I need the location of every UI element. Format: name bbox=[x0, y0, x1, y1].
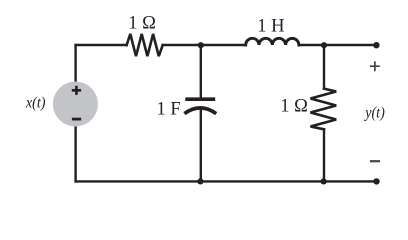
source - polarity mark bbox=[72, 118, 81, 121]
wire capacitor branch lower (C1 to bottom wire) bbox=[200, 110, 202, 181]
capacitor C1 1 F top plate bbox=[185, 97, 215, 101]
output - terminal dot bbox=[373, 178, 379, 184]
svg-text:y(t): y(t) bbox=[363, 104, 384, 121]
voltage source x(t) circle bbox=[53, 82, 98, 127]
output + terminal dot bbox=[373, 42, 379, 48]
bottom junction dot capacitor branch bbox=[197, 178, 203, 184]
node A junction dot (top of capacitor branch) bbox=[198, 42, 204, 48]
wire top from source to R1 bbox=[76, 44, 127, 46]
svg-text:1 Ω: 1 Ω bbox=[280, 97, 308, 117]
wire from R2 to bottom wire bbox=[323, 129, 325, 181]
wire bottom horizontal bbox=[76, 180, 377, 182]
wire left vertical from top wire to source top bbox=[74, 45, 76, 82]
wire from R1 to node A bbox=[163, 44, 201, 46]
wire left vertical from source bottom to bottom wire bbox=[74, 126, 76, 181]
resistor R1 1 Ohm (series) zigzag bbox=[127, 34, 163, 56]
svg-text:1 H: 1 H bbox=[257, 17, 284, 37]
wire from L1 to node B bbox=[299, 44, 324, 46]
source + polarity mark bbox=[72, 86, 81, 95]
wire from node B to output + terminal bbox=[324, 44, 376, 46]
wire capacitor branch upper (node A to C1 top plate) bbox=[200, 45, 202, 98]
svg-text:1 F: 1 F bbox=[157, 99, 181, 119]
output + sign bbox=[370, 61, 380, 71]
inductor L1 1 H (4 humps) bbox=[246, 38, 299, 45]
wire from node B down to R2 bbox=[323, 45, 325, 89]
node B junction dot (top of load branch) bbox=[321, 42, 327, 48]
output - sign bbox=[370, 160, 380, 162]
bottom junction dot load branch bbox=[321, 178, 327, 184]
svg-text:x(t): x(t) bbox=[25, 95, 45, 112]
capacitor C1 1 F curved bottom plate bbox=[184, 108, 216, 114]
svg-text:1 Ω: 1 Ω bbox=[128, 13, 156, 33]
resistor R2 1 Ohm (load) vertical zigzag bbox=[311, 89, 337, 130]
wire from node A to L1 bbox=[201, 44, 246, 46]
